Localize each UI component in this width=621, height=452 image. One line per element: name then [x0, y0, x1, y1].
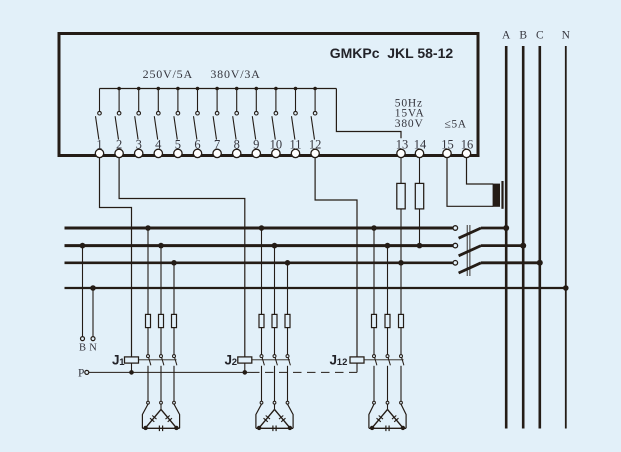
switch S12 inside unit — [311, 89, 317, 140]
terminal 16 — [462, 149, 470, 157]
switch S6 inside unit — [194, 89, 200, 140]
wire bus L1 to fuse (J2 group) — [261, 228, 263, 314]
junction fuse FU14 on bus L2 — [417, 243, 423, 249]
junction fuse drop J12 phase L1 — [371, 225, 377, 231]
relay contact J1-1 — [147, 355, 151, 366]
wire bus L2 to fuse (J1 group) — [160, 246, 162, 315]
phase line C — [538, 46, 541, 429]
relay contact J12-3 — [400, 355, 404, 366]
relay J1 contact linkage — [139, 359, 177, 361]
wire terminal 2 to coil J2 — [119, 158, 245, 357]
switch S10 inside unit — [272, 89, 278, 140]
junction tap N on neutral bus — [90, 285, 96, 291]
junction fuse drop J1 phase L1 — [145, 225, 151, 231]
junction on internal bus above switch 5 — [176, 87, 180, 91]
neutral bus — [65, 287, 566, 289]
wire fuse to contact (J12 L3) — [400, 328, 402, 355]
fuse J12 phase L1 — [372, 314, 377, 327]
junction fuse drop J1 phase L2 — [158, 243, 164, 249]
lamp group 2 (delta load) — [256, 401, 293, 431]
terminal 10 — [272, 149, 280, 157]
lamp group 1 (delta load) — [142, 401, 179, 431]
relay contact J2-3 — [286, 355, 290, 366]
knife switch QS pole C — [453, 260, 543, 273]
switch S1 inside unit — [96, 89, 102, 140]
label 380V/3A — [210, 67, 260, 81]
svg-text:12: 12 — [337, 357, 348, 368]
relay contact J2-1 — [260, 355, 264, 366]
terminal 6 — [193, 149, 201, 157]
junction on internal bus above switch 2 — [117, 87, 121, 91]
fuse J1 phase L2 — [159, 314, 164, 327]
junction on internal bus above switch 10 — [274, 87, 278, 91]
junction neutral bus to line N — [563, 285, 569, 291]
tap terminal B — [81, 337, 85, 341]
label J1 — [112, 352, 125, 368]
wire contact to lamp group (J2 2) — [274, 366, 276, 402]
fuse J2 phase L3 — [285, 314, 290, 327]
label phase C — [536, 29, 544, 41]
terminal P — [85, 370, 89, 374]
wire terminal 16 to CT winding — [467, 158, 494, 184]
terminal 5 — [174, 149, 182, 157]
svg-text:C: C — [536, 29, 544, 41]
relay J2 contact linkage — [252, 359, 290, 361]
phase line A — [505, 46, 508, 429]
switch S2 inside unit — [115, 89, 121, 140]
junction coil J1 on P line — [129, 370, 134, 375]
wire contact to lamp group (J1 1) — [147, 366, 149, 402]
control line P dashed — [251, 371, 357, 373]
wire contact to lamp group (J12 3) — [400, 366, 402, 402]
terminal number 12 — [309, 138, 322, 152]
junction fuse drop J2 phase L1 — [259, 225, 265, 231]
wire bus L3 to fuse (J1 group) — [173, 263, 175, 315]
knife switch QS linkage — [467, 225, 470, 276]
knife switch QS pole A — [453, 225, 509, 238]
wire terminal 15 to CT winding — [447, 158, 493, 207]
terminal number 10 — [270, 138, 283, 152]
wire tap N — [92, 288, 94, 337]
relay contact J12-1 — [373, 355, 377, 366]
junction on internal bus above switch 7 — [215, 87, 219, 91]
label P — [78, 368, 84, 380]
wire fuse to contact (J12 L1) — [373, 328, 375, 355]
junction on internal bus above switch 8 — [235, 87, 239, 91]
terminal number 1 — [96, 138, 102, 152]
junction on internal bus above switch 9 — [254, 87, 258, 91]
label GMKPc JKL 58-12 — [330, 45, 454, 61]
junction on internal bus above switch 12 — [313, 87, 317, 91]
fuse J1 phase L3 — [172, 314, 177, 327]
svg-text:≤5A: ≤5A — [445, 119, 467, 131]
bus L1 — [65, 227, 454, 230]
terminal 8 — [233, 149, 241, 157]
fuse FU14 — [415, 183, 423, 209]
label phase B — [519, 29, 527, 41]
switch S4 inside unit — [154, 89, 160, 140]
junction fuse drop J12 phase L2 — [385, 243, 391, 249]
switch S3 inside unit — [135, 89, 141, 140]
relay contact J1-2 — [160, 355, 164, 366]
relay contact J1-3 — [173, 355, 177, 366]
fuse J1 phase L1 — [146, 314, 151, 327]
switch S11 inside unit — [292, 89, 298, 140]
wire fuse FU13 to bus L3 — [400, 209, 402, 263]
terminal number 7 — [214, 138, 220, 152]
terminal number 3 — [136, 138, 142, 152]
terminal 12 — [311, 149, 319, 157]
terminal 1 — [95, 149, 103, 157]
junction on internal bus above switch 6 — [196, 87, 200, 91]
junction on internal bus above switch 3 — [137, 87, 141, 91]
wire fuse to contact (J1 L3) — [173, 328, 175, 355]
svg-text:N: N — [562, 29, 571, 41]
fuse J12 phase L2 — [385, 314, 390, 327]
junction fuse drop J2 phase L3 — [285, 260, 291, 266]
label 15VA — [395, 108, 425, 120]
wire fuse to contact (J1 L1) — [147, 328, 149, 355]
fuse FU13 — [397, 183, 405, 209]
wire fuse to contact (J2 L1) — [261, 328, 263, 355]
neutral line N — [565, 46, 567, 429]
wire fuse to contact (J1 L2) — [160, 328, 162, 355]
wire bus L3 to fuse (J2 group) — [287, 263, 289, 315]
junction coil J2 on P line — [243, 370, 248, 375]
svg-text:GMKPc JKL 58-12: GMKPc JKL 58-12 — [330, 45, 454, 61]
terminal number 4 — [155, 138, 162, 152]
label N — [89, 343, 97, 354]
label J2 — [225, 352, 238, 368]
fuse J2 phase L1 — [259, 314, 264, 327]
label 50Hz — [395, 98, 423, 110]
terminal 13 — [397, 149, 405, 157]
terminal number 2 — [116, 138, 122, 152]
wire contact to lamp group (J2 3) — [287, 366, 289, 402]
wire contact to lamp group (J2 1) — [261, 366, 263, 402]
svg-text:250V/5A: 250V/5A — [143, 67, 193, 81]
internal supply bus — [100, 88, 337, 90]
wire contact to lamp group (J1 2) — [160, 366, 162, 402]
wire tap B — [82, 246, 84, 337]
terminal number 13 — [396, 138, 409, 152]
svg-text:B: B — [79, 343, 86, 354]
lamp group 3 (delta load) — [369, 401, 406, 431]
svg-text:1: 1 — [119, 357, 125, 368]
relay J12 contact linkage — [364, 359, 404, 361]
wire contact to lamp group (J1 3) — [173, 366, 175, 402]
terminal 3 — [135, 149, 143, 157]
junction on internal bus above switch 11 — [294, 87, 298, 91]
svg-text:2: 2 — [232, 357, 237, 368]
wire contact to lamp group (J12 2) — [387, 366, 389, 402]
label neutral N — [562, 29, 571, 41]
terminal 14 — [415, 149, 423, 157]
relay coil J2 — [238, 357, 252, 373]
control line P solid — [89, 371, 251, 373]
terminal number 5 — [175, 138, 181, 152]
label J12 — [330, 352, 348, 368]
tap terminal N — [91, 337, 95, 341]
current transformer CT core bar — [501, 181, 503, 209]
switch S8 inside unit — [233, 89, 239, 140]
wire bus L2 to fuse (J2 group) — [274, 246, 276, 315]
terminal number 14 — [414, 138, 427, 152]
junction fuse drop J2 phase L2 — [272, 243, 278, 249]
terminal 7 — [213, 149, 221, 157]
wire fuse FU14 to bus L2 — [419, 209, 421, 246]
label max 5A — [445, 119, 467, 131]
terminal number 9 — [253, 138, 259, 152]
wire terminal 12 to coil J12 — [315, 158, 357, 357]
terminal number 6 — [194, 138, 200, 152]
svg-text:B: B — [519, 29, 527, 41]
terminal 4 — [154, 149, 162, 157]
switch S9 inside unit — [252, 89, 258, 140]
svg-text:N: N — [89, 343, 97, 354]
bus L2 — [65, 244, 454, 247]
wire terminal 13 to fuse FU13 — [400, 158, 402, 184]
knife switch QS pole B — [453, 243, 526, 256]
svg-text:P: P — [78, 368, 84, 380]
junction on internal bus above switch 4 — [157, 87, 161, 91]
label phase A — [502, 29, 511, 41]
wire fuse to contact (J2 L3) — [287, 328, 289, 355]
terminal 9 — [252, 149, 260, 157]
label B — [79, 343, 86, 354]
wire contact to lamp group (J12 1) — [373, 366, 375, 402]
wire terminal 14 to fuse FU14 — [419, 158, 421, 184]
wire bus L1 to fuse (J1 group) — [147, 228, 149, 314]
terminal number 15 — [441, 138, 454, 152]
junction fuse drop J12 phase L3 — [398, 260, 404, 266]
terminal number 8 — [234, 138, 240, 152]
wire fuse to contact (J2 L2) — [274, 328, 276, 355]
terminal 15 — [443, 149, 451, 157]
junction tap B on bus L2 — [80, 243, 86, 249]
current transformer CT winding — [493, 184, 500, 207]
label 250V/5A — [143, 67, 193, 81]
wire bus L3 to fuse (J12 group) — [400, 263, 402, 315]
junction fuse drop J1 phase L3 — [171, 260, 177, 266]
wire fuse to contact (J12 L2) — [387, 328, 389, 355]
switch S7 inside unit — [213, 89, 219, 140]
control unit box GMKPc JKL 58-12 — [59, 34, 478, 156]
relay contact J12-2 — [386, 355, 390, 366]
svg-text:A: A — [502, 29, 511, 41]
label 380V — [395, 118, 424, 130]
relay coil J1 — [125, 357, 139, 373]
wire terminal 1 to coil J1 — [100, 158, 132, 357]
terminal number 11 — [289, 138, 301, 152]
bus L3 — [65, 261, 454, 264]
fuse J2 phase L2 — [272, 314, 277, 327]
fuse J12 phase L3 — [399, 314, 404, 327]
terminal number 16 — [461, 138, 474, 152]
internal wire bus to terminal 13 — [336, 89, 401, 139]
svg-text:380V/3A: 380V/3A — [210, 67, 260, 81]
wire bus L1 to fuse (J12 group) — [373, 228, 375, 314]
relay coil J12 — [350, 357, 364, 373]
wire bus L2 to fuse (J12 group) — [387, 246, 389, 315]
phase line B — [522, 46, 525, 429]
switch S5 inside unit — [174, 89, 180, 140]
terminal 11 — [291, 149, 299, 157]
relay contact J2-2 — [273, 355, 277, 366]
terminal 2 — [115, 149, 123, 157]
svg-text:380V: 380V — [395, 118, 424, 130]
